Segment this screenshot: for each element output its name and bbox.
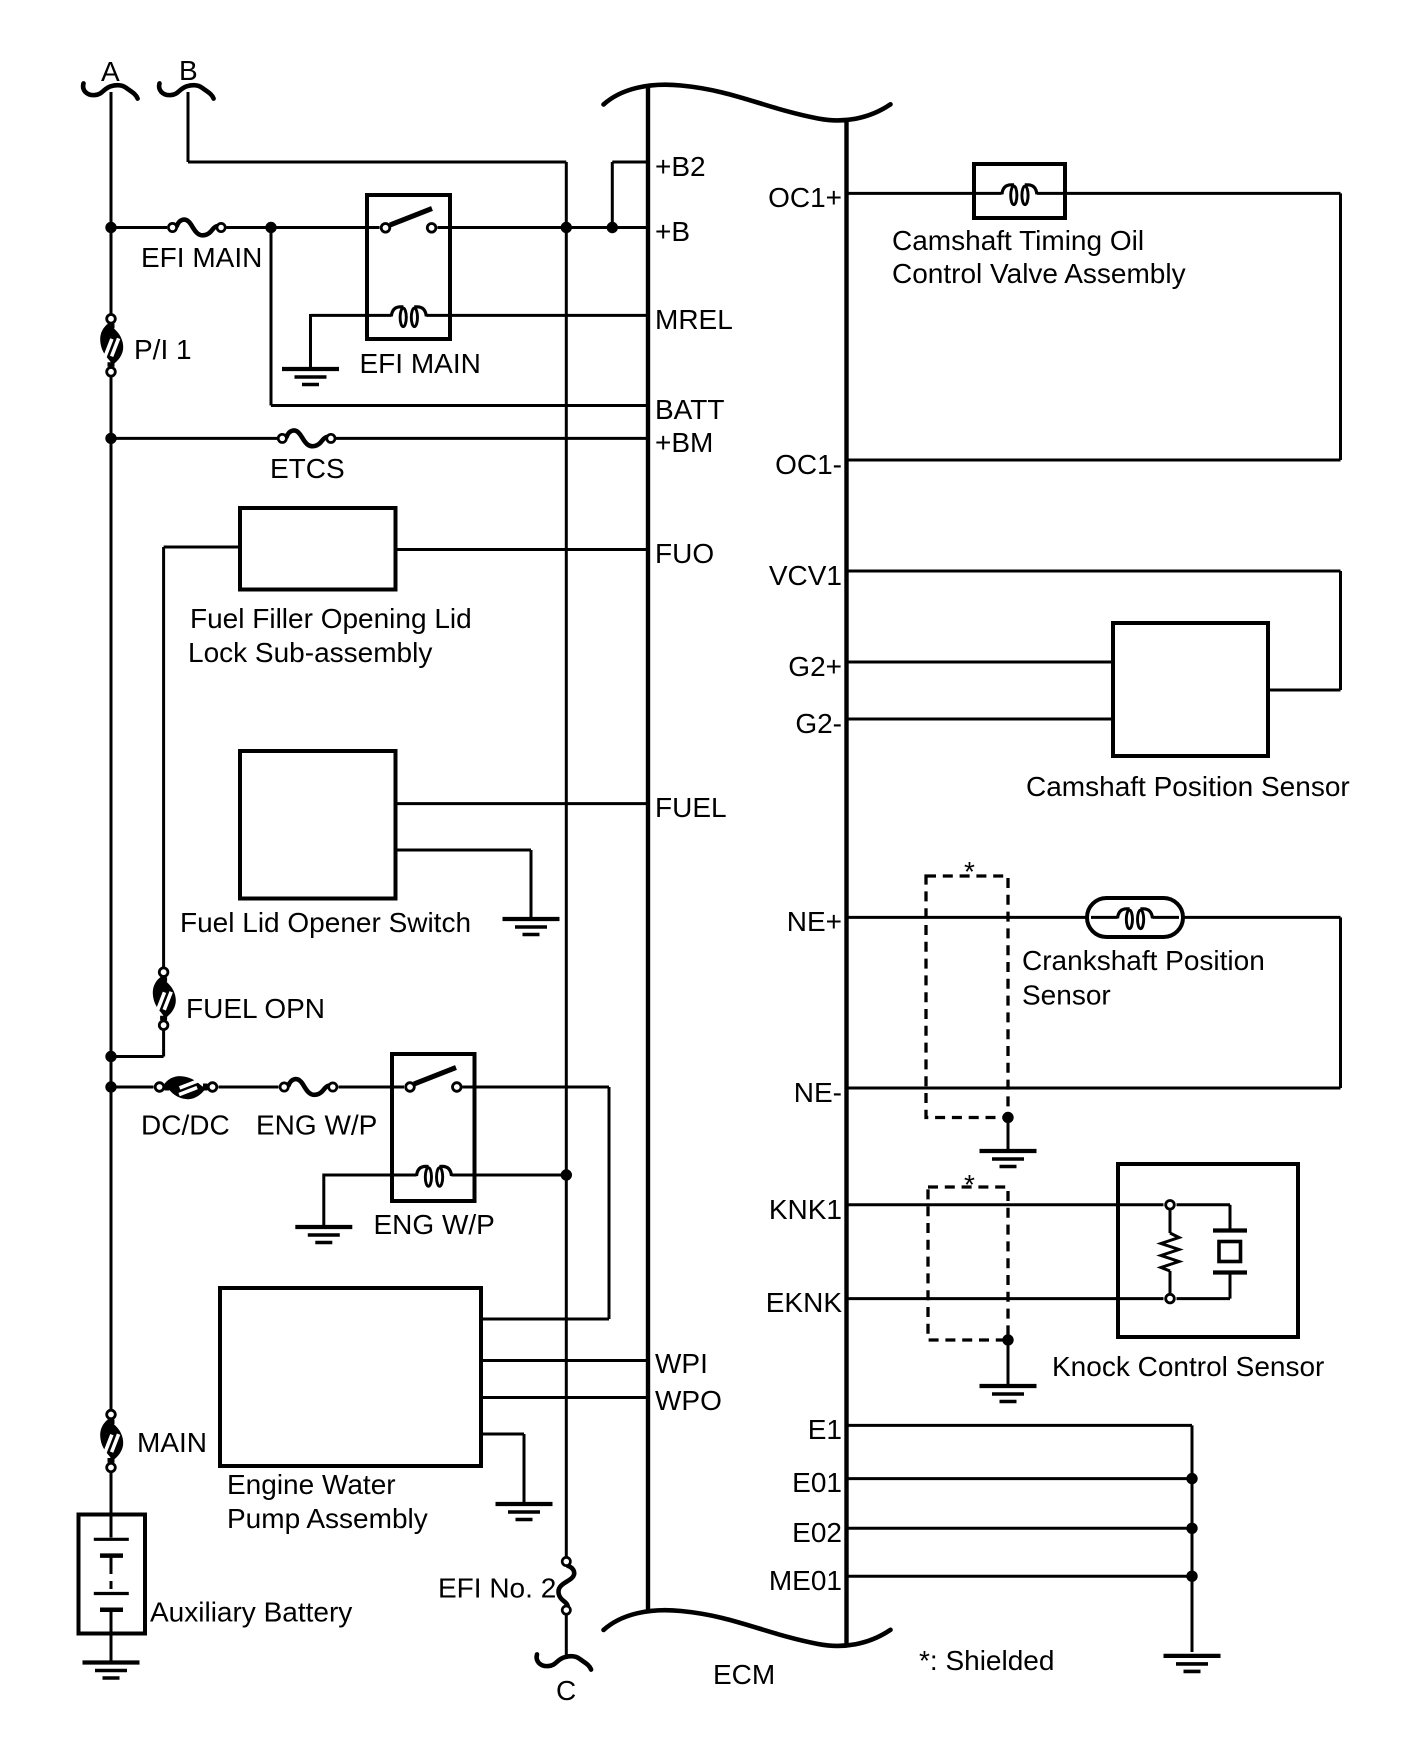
- svg-text:B: B: [179, 55, 198, 86]
- piezoelectric element (knock sensor): [1213, 1231, 1247, 1273]
- battery (auxiliary battery): [79, 1515, 353, 1634]
- ground (ECM E lines): [1164, 1656, 1221, 1672]
- svg-text:Knock Control Sensor: Knock Control Sensor: [1052, 1351, 1324, 1382]
- junction DC/DC / A wire: [105, 1081, 116, 1092]
- wire WPO to ECM: [481, 1396, 648, 1399]
- wire FUEL to ECM: [396, 802, 649, 805]
- connector B: [159, 55, 213, 99]
- wire +B2 stub: [612, 162, 648, 228]
- svg-text:FUEL OPN: FUEL OPN: [186, 993, 325, 1024]
- svg-text:Pump Assembly: Pump Assembly: [227, 1503, 428, 1534]
- ground (crankshaft shield): [980, 1151, 1037, 1167]
- fuse ETCS: [270, 430, 345, 484]
- wire E02: [847, 1527, 1193, 1530]
- fuse EFI MAIN: [141, 220, 262, 273]
- wire +BM rail: [111, 437, 648, 440]
- wire EKNK: [847, 1275, 1231, 1299]
- relay ENG W/P coil: [324, 1166, 567, 1240]
- svg-text:KNK1: KNK1: [769, 1194, 842, 1225]
- connector C: [537, 1654, 591, 1706]
- wire relay switch to pump: [463, 1087, 610, 1319]
- camshaft position sensor box: [1026, 623, 1350, 802]
- junction +B / BATT branch: [265, 222, 276, 233]
- wire NE+ to NE- return: [1339, 917, 1342, 1088]
- junction +B / +B2 stub: [607, 222, 618, 233]
- svg-text:Camshaft Position Sensor: Camshaft Position Sensor: [1026, 771, 1350, 802]
- svg-text:G2-: G2-: [795, 708, 842, 739]
- svg-text:Lock Sub-assembly: Lock Sub-assembly: [188, 637, 432, 668]
- svg-text:BATT: BATT: [655, 394, 724, 425]
- wire A vertical (battery feed): [110, 92, 113, 1515]
- junction shield drain (knock): [1002, 1334, 1013, 1345]
- fusible link MAIN: [100, 1410, 207, 1472]
- fusible link P/I 1: [100, 315, 191, 377]
- svg-text:ENG W/P: ENG W/P: [256, 1110, 377, 1141]
- wire E1: [847, 1425, 1193, 1652]
- ECM right boundary line: [844, 121, 848, 1644]
- wire B vertical branch to EFI No.2: [565, 162, 568, 1557]
- wire switch to ground: [396, 850, 532, 919]
- junction E01: [1186, 1473, 1197, 1484]
- relay ENG W/P box: [392, 1054, 475, 1201]
- svg-text:P/I 1: P/I 1: [134, 334, 192, 365]
- svg-text:EFI No. 2: EFI No. 2: [438, 1573, 556, 1604]
- wire NE-: [847, 1087, 1341, 1090]
- camshaft timing oil control valve assembly: [892, 164, 1186, 289]
- svg-text:OC1-: OC1-: [775, 449, 842, 480]
- svg-text:E1: E1: [808, 1414, 842, 1445]
- wire pump to ground: [481, 1434, 524, 1504]
- junction relay coil / B branch: [561, 1169, 572, 1180]
- junction +B / A wire: [105, 222, 116, 233]
- svg-text:+B2: +B2: [655, 151, 706, 182]
- svg-text:NE+: NE+: [787, 906, 842, 937]
- crankshaft position sensor pickup coil: [1022, 898, 1265, 1011]
- ground (knock shield): [980, 1386, 1037, 1402]
- svg-text:Auxiliary Battery: Auxiliary Battery: [150, 1597, 352, 1628]
- svg-text:Fuel Lid Opener Switch: Fuel Lid Opener Switch: [180, 907, 471, 938]
- relay ENG W/P switch: [406, 1068, 461, 1092]
- svg-text:Crankshaft Position: Crankshaft Position: [1022, 945, 1265, 976]
- svg-text:A: A: [101, 56, 120, 87]
- wire +B rail: [111, 226, 648, 229]
- junction FUEL OPN / A wire: [105, 1051, 116, 1062]
- wire shield to ground (knock): [1007, 1340, 1010, 1386]
- ground (engine water pump): [496, 1504, 553, 1520]
- relay EFI MAIN box: [367, 195, 450, 339]
- svg-text:*: *: [964, 1169, 975, 1200]
- svg-text:MAIN: MAIN: [137, 1427, 207, 1458]
- wire BATT branch: [271, 228, 648, 406]
- fuse ENG W/P: [256, 1079, 377, 1140]
- fuel lid opener switch box: [180, 751, 471, 938]
- svg-text:DC/DC: DC/DC: [141, 1110, 230, 1141]
- svg-text:MREL: MREL: [655, 304, 733, 335]
- svg-text:NE-: NE-: [794, 1077, 842, 1108]
- svg-text:ECM: ECM: [713, 1659, 775, 1690]
- svg-text:E01: E01: [792, 1467, 842, 1498]
- shield box (knock sensor): [928, 1169, 1008, 1340]
- wire fuse to connector C: [565, 1615, 568, 1659]
- wire OC1+ loop: [847, 193, 1341, 460]
- junction shield drain (crankshaft): [1002, 1112, 1013, 1123]
- connector A: [83, 56, 137, 99]
- svg-text:G2+: G2+: [788, 651, 842, 682]
- ECM bottom break wave: [604, 1610, 891, 1646]
- svg-text:+BM: +BM: [655, 427, 713, 458]
- svg-text:OC1+: OC1+: [768, 182, 842, 213]
- engine water pump assembly box: [220, 1288, 481, 1534]
- wire NE+: [847, 916, 1341, 919]
- wire G2-: [847, 718, 1114, 721]
- wire battery to ground: [110, 1634, 113, 1663]
- svg-text:Engine Water: Engine Water: [227, 1469, 396, 1500]
- resistor (knock sensor): [1161, 1211, 1179, 1294]
- svg-text:WPO: WPO: [655, 1385, 722, 1416]
- svg-text:Sensor: Sensor: [1022, 980, 1111, 1011]
- svg-text:Control Valve Assembly: Control Valve Assembly: [892, 258, 1186, 289]
- ground (auxiliary battery): [83, 1663, 140, 1679]
- svg-text:Camshaft Timing Oil: Camshaft Timing Oil: [892, 225, 1144, 256]
- ground (ENG W/P relay coil): [295, 1174, 352, 1243]
- wire WPI to ECM: [481, 1359, 648, 1362]
- fuel filler opening lid lock sub-assembly box: [188, 508, 472, 668]
- svg-text:ME01: ME01: [769, 1565, 842, 1596]
- fusible link DC/DC: [141, 1076, 230, 1140]
- svg-text:E02: E02: [792, 1517, 842, 1548]
- svg-text:EKNK: EKNK: [766, 1287, 843, 1318]
- junction ME01: [1186, 1571, 1197, 1582]
- wire VCV1: [847, 571, 1341, 690]
- wire G2+: [847, 661, 1114, 664]
- fuse FUEL OPN: [153, 968, 325, 1030]
- ECM top break wave: [604, 85, 891, 121]
- svg-text:FUO: FUO: [655, 538, 714, 569]
- svg-text:WPI: WPI: [655, 1348, 708, 1379]
- ground (EFI MAIN relay coil): [282, 314, 339, 385]
- wire FUO to ECM: [396, 548, 649, 551]
- junction +B / B branch: [561, 222, 572, 233]
- knock control sensor box: [1052, 1164, 1324, 1382]
- ECM left boundary line: [646, 88, 650, 1611]
- wire FUEL OPN to A wire: [111, 1029, 164, 1057]
- wire DC/DC rail: [111, 1086, 609, 1089]
- svg-text:EFI MAIN: EFI MAIN: [141, 242, 262, 273]
- wire E01: [847, 1477, 1193, 1480]
- svg-text:+B: +B: [655, 216, 690, 247]
- svg-text:Fuel Filler Opening Lid: Fuel Filler Opening Lid: [190, 603, 472, 634]
- wire FUO feed (left of lock): [164, 547, 240, 969]
- svg-text:VCV1: VCV1: [769, 560, 842, 591]
- junction +BM / A wire: [105, 433, 116, 444]
- relay EFI MAIN switch: [381, 209, 436, 233]
- svg-text:EFI MAIN: EFI MAIN: [360, 348, 481, 379]
- wire ME01: [847, 1575, 1193, 1578]
- svg-text:ETCS: ETCS: [270, 453, 345, 484]
- wire KNK1: [847, 1205, 1231, 1229]
- svg-text:FUEL: FUEL: [655, 792, 727, 823]
- svg-text:ENG W/P: ENG W/P: [374, 1209, 495, 1240]
- wire shield to ground (crankshaft): [1007, 1118, 1010, 1152]
- svg-text:C: C: [556, 1675, 576, 1706]
- fuse EFI No. 2: [438, 1557, 574, 1614]
- svg-text:*: Shielded: *: Shielded: [919, 1645, 1054, 1676]
- svg-text:*: *: [964, 856, 975, 887]
- wire B to +B2: [188, 92, 566, 162]
- ground (fuel lid opener switch): [503, 919, 560, 935]
- relay EFI MAIN coil: [311, 307, 649, 379]
- shield box (crankshaft sensor): [926, 856, 1008, 1118]
- knock sensor terminals: [1166, 1201, 1175, 1303]
- junction E02: [1186, 1523, 1197, 1534]
